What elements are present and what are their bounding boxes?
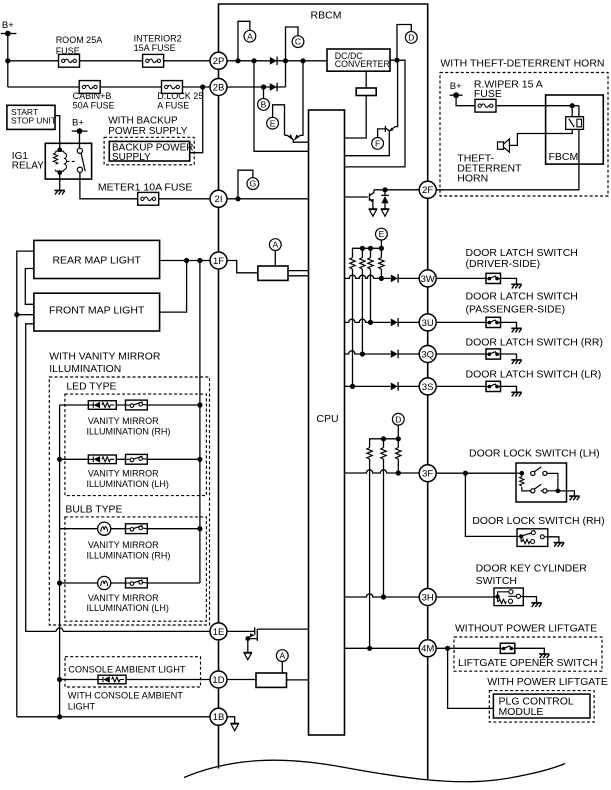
junction dot FBCM relay feed (570, 103, 575, 108)
junction dot console ambient light return (57, 677, 62, 682)
speaker symbol theft-deterrent horn (498, 142, 504, 149)
transistor Q3 (2F output) (369, 190, 374, 202)
fuse CABIN+B 50A (79, 81, 100, 94)
hook wire circuit E (top) to transistor base (273, 105, 285, 136)
diode on 2B row (270, 83, 277, 92)
dashed box WITH POWER LIFTGATE / PLG (489, 691, 594, 723)
junction dot door lock switch (RH) input (519, 534, 523, 538)
bus wire pull-up resistors (door lock) (370, 439, 399, 448)
wire connector 4M to liftgate opener switch (436, 647, 500, 649)
svg-text:FUSE: FUSE (56, 46, 80, 56)
svg-text:DOOR LATCH SWITCH: DOOR LATCH SWITCH (466, 291, 578, 303)
svg-text:DOOR LOCK SWITCH (LH): DOOR LOCK SWITCH (LH) (469, 448, 600, 460)
hook wire circuit G (238, 170, 253, 199)
junction dot vanity return row 2 (57, 457, 62, 462)
pin 2I (210, 190, 227, 207)
svg-text:B+: B+ (2, 20, 14, 31)
node B+ terminal (theft-deterrent) (450, 94, 463, 96)
dashed box CONSOLE AMBIENT LIGHT (65, 657, 201, 687)
wire door lock switch (LH) to ground (567, 491, 575, 496)
wire connector to door latch switch (LR) (436, 385, 486, 387)
wire 2I row into RBCM to CPU (227, 198, 309, 200)
pin 1E (210, 623, 227, 640)
junction dot MOSFET source (245, 636, 250, 641)
svg-text:3Q: 3Q (421, 349, 434, 360)
wire diode to connector 3Q (398, 353, 419, 355)
svg-text:1B: 1B (213, 712, 225, 723)
wire zener to ground arrow (384, 203, 386, 209)
ground (chassis) door lock switch (RH) (554, 543, 564, 547)
svg-text:A: A (279, 651, 285, 661)
wire horn relay switch to theft-deterrent horn (509, 129, 572, 145)
wire connector 1D to resistor R10 (227, 679, 256, 681)
ground (chassis) door latch switch (PASSENGER-SIDE) (511, 328, 521, 332)
svg-text:D: D (395, 414, 401, 424)
node B (258, 99, 270, 111)
wire resistor R1 to CPU (345, 96, 367, 139)
wire DC/DC converter output (345, 60, 406, 167)
wire transistor Q3 emitter to ground arrow (372, 202, 374, 208)
svg-text:POWER SUPPLY: POWER SUPPLY (108, 126, 188, 137)
svg-text:LIFTGATE OPENER SWITCH: LIFTGATE OPENER SWITCH (458, 658, 598, 669)
LED vanity mirror illumination (RH) (88, 401, 116, 410)
node A (top) (244, 30, 256, 42)
wire connector to door latch switch (PASSENGER-SIDE) (436, 321, 486, 323)
torn-edge wave at bottom (184, 760, 565, 782)
svg-text:REAR MAP LIGHT: REAR MAP LIGHT (52, 255, 141, 267)
dashed box BULB TYPE (65, 517, 207, 621)
wire START STOP UNIT output to IG1 relay coil (55, 116, 60, 150)
junction dot DC/DC output / circuit D (394, 58, 399, 63)
svg-text:CONVERTER: CONVERTER (335, 59, 390, 69)
junction dot vanity return / 1B row (57, 714, 62, 719)
hook wire circuit D (top) (397, 25, 411, 61)
wire 2P row inside RBCM to DC/DC converter (227, 60, 327, 62)
svg-text:FUSE: FUSE (474, 88, 502, 100)
box door lock switch (RH) (517, 529, 548, 547)
node A (1D resistor) (276, 650, 288, 662)
junction dot vanity feed row 2 (197, 457, 202, 462)
svg-text:3W: 3W (421, 274, 435, 285)
stem circuit A to resistor R10 (281, 662, 283, 674)
wire 1B row to connector 1B (17, 716, 210, 718)
ground (chassis) door latch switch (DRIVER-SIDE) (511, 284, 521, 288)
ground (chassis) door lock switch (LH) (569, 496, 579, 500)
wire IG1 relay coil to ground (59, 173, 61, 190)
LED console ambient light (98, 675, 126, 684)
junction dot circuit G / 2I row (235, 196, 240, 201)
box BACKUP POWER SUPPLY (109, 141, 189, 161)
wire MOSFET source to ground arrow (247, 639, 249, 653)
zener diode D2 on 2F row (381, 190, 389, 196)
svg-text:3H: 3H (422, 592, 434, 603)
svg-text:ILLUMINATION: ILLUMINATION (49, 364, 121, 375)
wire resistor R3 down to 3Q row (361, 269, 363, 354)
switch vanity mirror bulb (RH) (126, 524, 148, 534)
wire 3F row from CPU (hops) (345, 470, 420, 473)
junction dot front map light ground (14, 312, 19, 317)
fuse ROOM 25A (59, 54, 80, 67)
ground (chassis) door key cylinder switch (531, 603, 541, 607)
fuse INTERIOR2 15A (143, 54, 164, 67)
svg-text:2P: 2P (213, 56, 225, 67)
transistor Q1 (2P/2B supply select) (285, 61, 309, 142)
wire door lock switch (RH) to ground (548, 537, 559, 543)
wire console ambient light row to connector 1D (60, 679, 211, 681)
wire B+ feed down to 2P and 2B rows (7, 34, 9, 88)
pin 3W (419, 270, 436, 287)
svg-text:STOP UNIT: STOP UNIT (11, 116, 56, 126)
svg-text:VANITY MIRROR: VANITY MIRROR (88, 540, 159, 550)
dashed box WITH VANITY MIRROR ILLUMINATION (49, 377, 209, 625)
junction dot door lock switch (LH) input (520, 471, 525, 476)
switch vanity mirror bulb (LH) (126, 578, 148, 588)
dashed box WITH THEFT-DETERRENT HORN (440, 73, 608, 197)
svg-text:DOOR LOCK SWITCH (RH): DOOR LOCK SWITCH (RH) (472, 515, 604, 527)
wire BACKUP POWER SUPPLY output to 2B row (190, 87, 203, 153)
wire vanity feed bus from 1F node (199, 261, 201, 584)
svg-text:VANITY MIRROR: VANITY MIRROR (88, 593, 159, 603)
bus wire pull-up resistors (door latch) (353, 248, 382, 257)
hook wire circuit A (top) (238, 21, 250, 61)
svg-text:G: G (250, 179, 257, 189)
ground arrow below zener diode (381, 209, 389, 216)
box FBCM (546, 95, 604, 164)
junction dot R8 / 3F row (396, 470, 401, 475)
wire door latch switch (LR) to ground (501, 386, 517, 392)
box door lock switch (LH) (516, 463, 567, 502)
junction dot R2 / 3S row (350, 384, 355, 389)
wire transistor Q2 collector from DC/DC output (395, 60, 397, 126)
box REAR MAP LIGHT (34, 240, 160, 278)
svg-text:2I: 2I (215, 194, 223, 205)
svg-text:1D: 1D (212, 675, 224, 686)
node D (top) (405, 32, 417, 44)
junction dot vanity feed riser (197, 258, 202, 263)
pin 3F (419, 465, 436, 482)
wire door latch switch (RR) to ground (501, 354, 517, 360)
node E (latch pull-ups) (376, 228, 388, 240)
switch vanity mirror illumination (LH) (126, 454, 148, 464)
wire door latch switch (PASSENGER-SIDE) to ground (501, 322, 517, 328)
junction dot 2P branch to CPU (251, 58, 256, 63)
wire resistor R7 down to 3H row (383, 459, 385, 597)
junction dot 4M branch to PLG module (445, 646, 450, 651)
pin 2P (210, 52, 227, 69)
pin 4M (419, 640, 436, 657)
resistor R5 (3W pull-up) (379, 258, 384, 270)
pin 2F (419, 181, 436, 198)
resistor R2 (3S pull-up) (350, 258, 355, 270)
svg-text:ILLUMINATION (RH): ILLUMINATION (RH) (87, 550, 171, 560)
svg-text:VANITY MIRROR: VANITY MIRROR (88, 416, 159, 426)
diode on 3S row (391, 382, 398, 391)
svg-text:F: F (375, 139, 380, 149)
svg-text:4M: 4M (421, 644, 434, 655)
svg-text:B+: B+ (450, 81, 462, 92)
pin 3Q (419, 346, 436, 363)
svg-text:1F: 1F (213, 256, 224, 267)
svg-text:DOOR KEY CYLINDER: DOOR KEY CYLINDER (476, 563, 588, 575)
svg-text:ILLUMINATION (LH): ILLUMINATION (LH) (87, 603, 169, 613)
junction dot R5 / 3W row (379, 276, 384, 281)
junction dot pull-up bus 2 (368, 246, 373, 251)
door latch switch (PASSENGER-SIDE) (486, 317, 501, 327)
wire 2P row through fuses to connector 2P (8, 60, 210, 62)
box IG1 RELAY (45, 143, 91, 179)
node C (292, 36, 304, 48)
svg-text:MODULE: MODULE (499, 706, 544, 718)
resistor R3 (3Q pull-up) (360, 258, 365, 270)
wire connector 3H to door key cylinder switch (436, 596, 494, 598)
svg-text:B: B (261, 100, 267, 110)
bulb vanity mirror illumination (RH) (98, 522, 111, 535)
MOSFET Q4 (1E driver) (248, 627, 309, 641)
relay IG1 coil (57, 148, 62, 153)
wire 2P branch down to CPU (254, 61, 309, 152)
svg-text:A: A (272, 240, 278, 250)
door latch switch (DRIVER-SIDE) (486, 273, 501, 283)
wire 2B row inside RBCM to diode (227, 86, 286, 88)
wire 2B row through fuses to connector 2B (8, 86, 210, 88)
svg-text:RELAY: RELAY (12, 160, 44, 171)
svg-text:CPU: CPU (316, 413, 338, 425)
pin 2B (210, 79, 227, 96)
wire vanity mirror illumination (LH) LED row (60, 458, 200, 460)
resistor R1 (DC/DC output) (356, 88, 376, 96)
junction dot door key cylinder switch input (495, 595, 499, 599)
box START STOP UNIT (7, 105, 55, 129)
svg-text:2F: 2F (422, 185, 433, 196)
junction dot R3 / 3Q row (360, 351, 365, 356)
wire REAR MAP LIGHT to connector 1F (160, 260, 211, 262)
junction dot lock pull-up bus 1 (381, 436, 386, 441)
svg-text:ILLUMINATION (LH): ILLUMINATION (LH) (87, 479, 169, 489)
wire diode to connector 3U (398, 321, 419, 323)
wire resistor R9 to CPU (pair) (288, 271, 309, 276)
ground (chassis) liftgate opener switch (539, 654, 549, 658)
junction dot B+/2P row (5, 58, 10, 63)
box door key cylinder switch (494, 588, 523, 606)
wire horn relay coil to connector 2F (436, 129, 579, 189)
wire 4M branch to PLG control module (448, 648, 494, 708)
hook circuit D stem (lock pull-ups) (397, 425, 399, 439)
svg-text:A FUSE: A FUSE (157, 101, 189, 111)
node F (372, 138, 384, 150)
stem circuit A to resistor R9 (274, 251, 276, 266)
svg-text:50A FUSE: 50A FUSE (73, 101, 115, 111)
svg-text:E: E (270, 118, 276, 128)
junction dot hook A on 2P row (235, 58, 240, 63)
wire resistor R4 down to 3U row (370, 269, 372, 322)
wire diode to connector 3W (398, 277, 419, 279)
dashed box LED TYPE (65, 394, 207, 496)
wire resistor R5 down to 3W row (380, 269, 382, 278)
svg-text:2B: 2B (213, 82, 225, 93)
diode on 3U row (391, 318, 398, 327)
wire FRONT MAP LIGHT to 1F node (160, 261, 187, 313)
wire DC/DC converter to internal resistor (365, 71, 367, 88)
wire 3F branch down to door lock switch (RH) (465, 473, 517, 536)
pin 1F (210, 252, 227, 269)
svg-text:DOOR LATCH SWITCH (LR): DOOR LATCH SWITCH (LR) (466, 369, 602, 381)
svg-text:CONSOLE AMBIENT LIGHT: CONSOLE AMBIENT LIGHT (68, 665, 186, 675)
node A (1F resistor) (269, 239, 281, 251)
box FRONT MAP LIGHT (34, 293, 160, 331)
resistor R10 (console light driver) (256, 673, 287, 687)
svg-text:15A FUSE: 15A FUSE (134, 43, 176, 53)
svg-text:ROOM 25A: ROOM 25A (56, 35, 103, 45)
wire resistor R2 down to 3S row (352, 269, 354, 386)
wire vanity mirror illumination bulb (RH) row (60, 528, 200, 530)
relay IG1 switch (77, 148, 82, 153)
hook wire circuit F to transistor Q2 base (378, 129, 386, 138)
wire 3Q row from CPU (hop) (345, 351, 391, 354)
svg-text:A: A (247, 31, 253, 41)
junction dot R6 / 4M row (367, 646, 372, 651)
wire resistor R8 down to 3F row (397, 459, 399, 473)
svg-text:WITHOUT POWER LIFTGATE: WITHOUT POWER LIFTGATE (455, 624, 597, 635)
pin 3U (419, 314, 436, 331)
ground (chassis) below IG1 relay (55, 190, 65, 194)
transistor Q2 (345, 126, 396, 156)
node G (247, 178, 259, 190)
ground arrow below transistor Q3 (369, 209, 377, 216)
svg-text:B+: B+ (72, 117, 84, 128)
resistor R8 (3F pull-up) (396, 448, 401, 460)
hook circuit E stem (latch pull-ups) (380, 240, 382, 248)
fuse R.WIPER 15 A (475, 99, 496, 112)
wire REAR to FRONT MAP LIGHT link (25, 269, 34, 305)
junction dot vanity feed row 1 (197, 402, 202, 407)
svg-text:(DRIVER-SIDE): (DRIVER-SIDE) (466, 258, 541, 270)
box PLG CONTROL MODULE (493, 694, 590, 718)
svg-text:SWITCH: SWITCH (476, 575, 517, 587)
junction dot door lock switch (LH) output (556, 489, 561, 494)
junction dot lock pull-up bus 2 (396, 436, 401, 441)
svg-text:3F: 3F (422, 469, 433, 480)
dashed box WITHOUT POWER LIFTGATE (454, 637, 602, 671)
wire CPU to transistor Q3 base (2F driver) (345, 196, 368, 198)
wire vanity return bus to 1B row (59, 405, 61, 717)
junction dot 3F branch to RH switch (463, 471, 468, 476)
svg-text:(PASSENGER-SIDE): (PASSENGER-SIDE) (466, 303, 566, 315)
wire IG1 relay switch to METER1 fuse and connector 2I (80, 172, 210, 199)
wire FRONT MAP LIGHT ground side (17, 314, 34, 316)
wire 4M row from CPU (345, 647, 420, 649)
node B+ terminal above IG1 relay (72, 130, 88, 132)
wire connector to door latch switch (DRIVER-SIDE) (436, 277, 486, 279)
wire FRONT MAP LIGHT control to connector 1E (hops vanity return) (26, 324, 211, 632)
wire 3U row from CPU (hops) (345, 319, 391, 322)
junction dot pull-up bus 3 (379, 246, 384, 251)
svg-text:C: C (295, 37, 301, 47)
wire resistor R6 down to 4M row (369, 459, 371, 648)
junction dot circuit B / 2B row (261, 84, 266, 89)
wire B+ through R.WIPER fuse to FBCM (456, 95, 579, 106)
door latch switch (LR) (486, 381, 501, 391)
svg-text:HORN: HORN (457, 173, 488, 185)
svg-text:LED TYPE: LED TYPE (66, 382, 116, 393)
pin 1D (210, 671, 227, 688)
resistor R7 (3H pull-up) (381, 448, 386, 460)
resistor R6 (4M pull-up) (367, 448, 372, 460)
box DC/DC CONVERTER (327, 49, 390, 71)
svg-text:WITH CONSOLE AMBIENT: WITH CONSOLE AMBIENT (68, 690, 184, 700)
wire connector 1E to MOSFET gate (227, 630, 255, 632)
svg-text:LIGHT: LIGHT (68, 701, 96, 711)
relay in FBCM (horn relay) (572, 106, 579, 118)
wire B+ to IG1 relay switch contact (79, 131, 81, 148)
wire 3S row from CPU (345, 385, 391, 387)
svg-text:VANITY MIRROR: VANITY MIRROR (88, 469, 159, 479)
liftgate opener switch (500, 643, 515, 653)
wire vanity mirror illumination (RH) LED row (60, 404, 200, 406)
wire 2F row (transistor/zener to connector 2F) (374, 189, 420, 191)
box RBCM outline (219, 4, 428, 779)
svg-text:DOOR LATCH SWITCH (RR): DOOR LATCH SWITCH (RR) (466, 336, 603, 348)
wire 3H row from CPU (hop) (345, 594, 420, 597)
wire vanity mirror illumination bulb (LH) row (60, 582, 200, 584)
hook wire circuit C (286, 27, 299, 87)
door latch switch (RR) (486, 349, 501, 359)
svg-text:METER1 10A FUSE: METER1 10A FUSE (98, 181, 193, 193)
svg-text:FRONT MAP LIGHT: FRONT MAP LIGHT (49, 304, 145, 316)
pin 3S (419, 378, 436, 395)
wire connector to door latch switch (RR) (436, 353, 486, 355)
LED vanity mirror illumination (LH) (88, 455, 116, 464)
svg-text:E: E (379, 229, 385, 239)
svg-text:D: D (408, 33, 414, 43)
fuse D.LOCK 25A (162, 81, 183, 94)
svg-text:ILLUMINATION (RH): ILLUMINATION (RH) (87, 426, 171, 436)
node D (lock pull-ups) (392, 413, 404, 425)
switch vanity mirror illumination (RH) (126, 400, 148, 410)
wire REAR MAP LIGHT ground side (17, 251, 34, 717)
wire diode to connector 3S (398, 385, 419, 387)
junction dot zener / 2F row (382, 187, 387, 192)
dashed box WITH BACKUP POWER SUPPLY (104, 137, 194, 165)
svg-text:WITH POWER LIFTGATE: WITH POWER LIFTGATE (487, 677, 608, 688)
wire connector 1F to resistor R9 (227, 261, 258, 273)
junction dot front map light riser (184, 258, 189, 263)
fuse METER1 10A (138, 192, 159, 205)
junction dot diode output / circuit C riser (283, 58, 288, 63)
resistor R4 (3U pull-up) (368, 258, 373, 270)
svg-text:1E: 1E (213, 627, 225, 638)
box CPU (309, 110, 345, 735)
door key cylinder switch internals (494, 592, 509, 602)
ground arrow below MOSFET (1E) (244, 652, 252, 659)
junction dot pull-up bus 1 (360, 246, 365, 251)
svg-text:WITH VANITY MIRROR: WITH VANITY MIRROR (49, 351, 161, 362)
junction dot vanity return row 4 (57, 580, 62, 585)
diode on 3W row (391, 274, 398, 283)
junction dot backup supply / 2B row (200, 84, 205, 89)
svg-text:FBCM: FBCM (549, 151, 579, 163)
svg-text:3S: 3S (422, 382, 434, 393)
wire resistor R10 to CPU (287, 679, 309, 681)
svg-text:3U: 3U (422, 318, 434, 329)
pin 3H (419, 589, 436, 606)
svg-text:WITH THEFT-DETERRENT HORN: WITH THEFT-DETERRENT HORN (440, 58, 604, 70)
wire connector 1B to ground arrow (227, 717, 235, 724)
wire liftgate opener switch to ground (515, 648, 545, 654)
wire 3W row from CPU (hops over pull-up wires) (345, 275, 391, 278)
junction dot 2P row / transistor collector riser (300, 58, 305, 63)
wire door latch switch (DRIVER-SIDE) to ground (501, 278, 517, 284)
wire connector 3F to door lock switch (LH) (436, 472, 522, 474)
